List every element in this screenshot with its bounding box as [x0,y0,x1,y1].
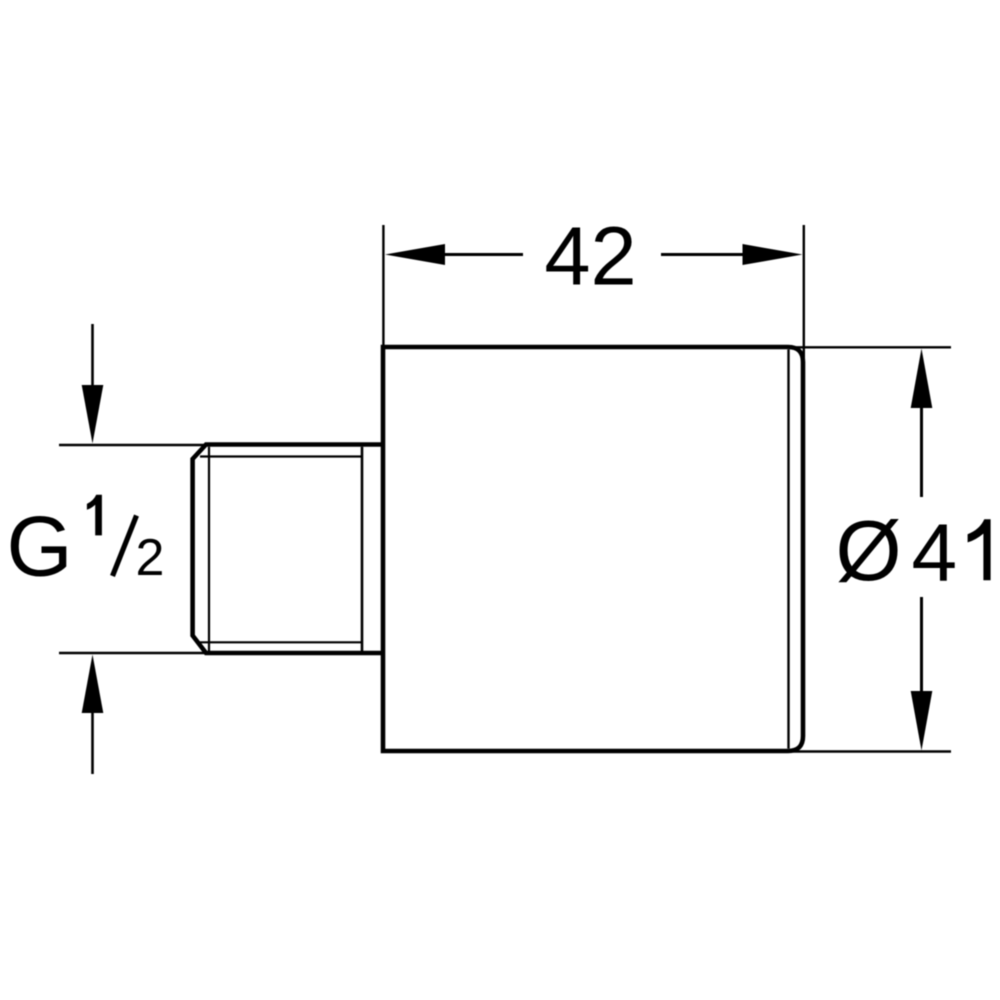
G1/2 bottom reference line [59,652,206,654]
dim 41 up arrowhead [911,349,933,409]
svg-text:Ø: Ø [836,504,902,599]
dim 42 dimension line left segment [445,253,523,256]
svg-text:42: 42 [544,210,636,303]
thread chamfer boundary line (thin vertical) [208,447,210,651]
dim 42 right arrowhead [743,244,803,265]
thread root line top [200,455,362,457]
svg-text:4: 4 [912,508,958,599]
svg-text:G: G [7,500,73,595]
dim 42 left arrowhead [385,244,445,265]
G1/2 bottom arrowhead (pointing up) [82,655,104,714]
thread size label fraction slash [113,516,137,577]
thread root line bottom [200,641,362,643]
svg-text:2: 2 [136,529,165,587]
dim 41 dimension line upper segment [920,408,923,497]
dim 42 left extension line [382,225,384,345]
dim 41 dimension line lower segment [920,597,923,691]
thread end line (vertical) [361,447,364,652]
dim 41 down arrowhead [911,691,933,751]
dim 41 digit one (custom arial-style) [968,519,991,580]
G1/2 bottom arrow shaft [91,713,94,774]
thread size label numerator 1 [87,495,102,536]
thread spigot outline (G1/2 male thread, chamfered end) [193,445,383,654]
G1/2 top arrow shaft [91,324,94,388]
body outline (main cylinder, rounded right corners) [383,347,803,751]
G1/2 top arrowhead (pointing down) [82,385,104,444]
dim 41 bottom extension line [793,750,951,752]
dim 42 dimension line right segment [661,253,744,256]
dim 41 top extension line [793,346,951,348]
G1/2 top reference line [59,444,206,446]
dim 42 right extension line [803,225,805,359]
body tangent line (thin vertical near right edge) [787,350,789,749]
